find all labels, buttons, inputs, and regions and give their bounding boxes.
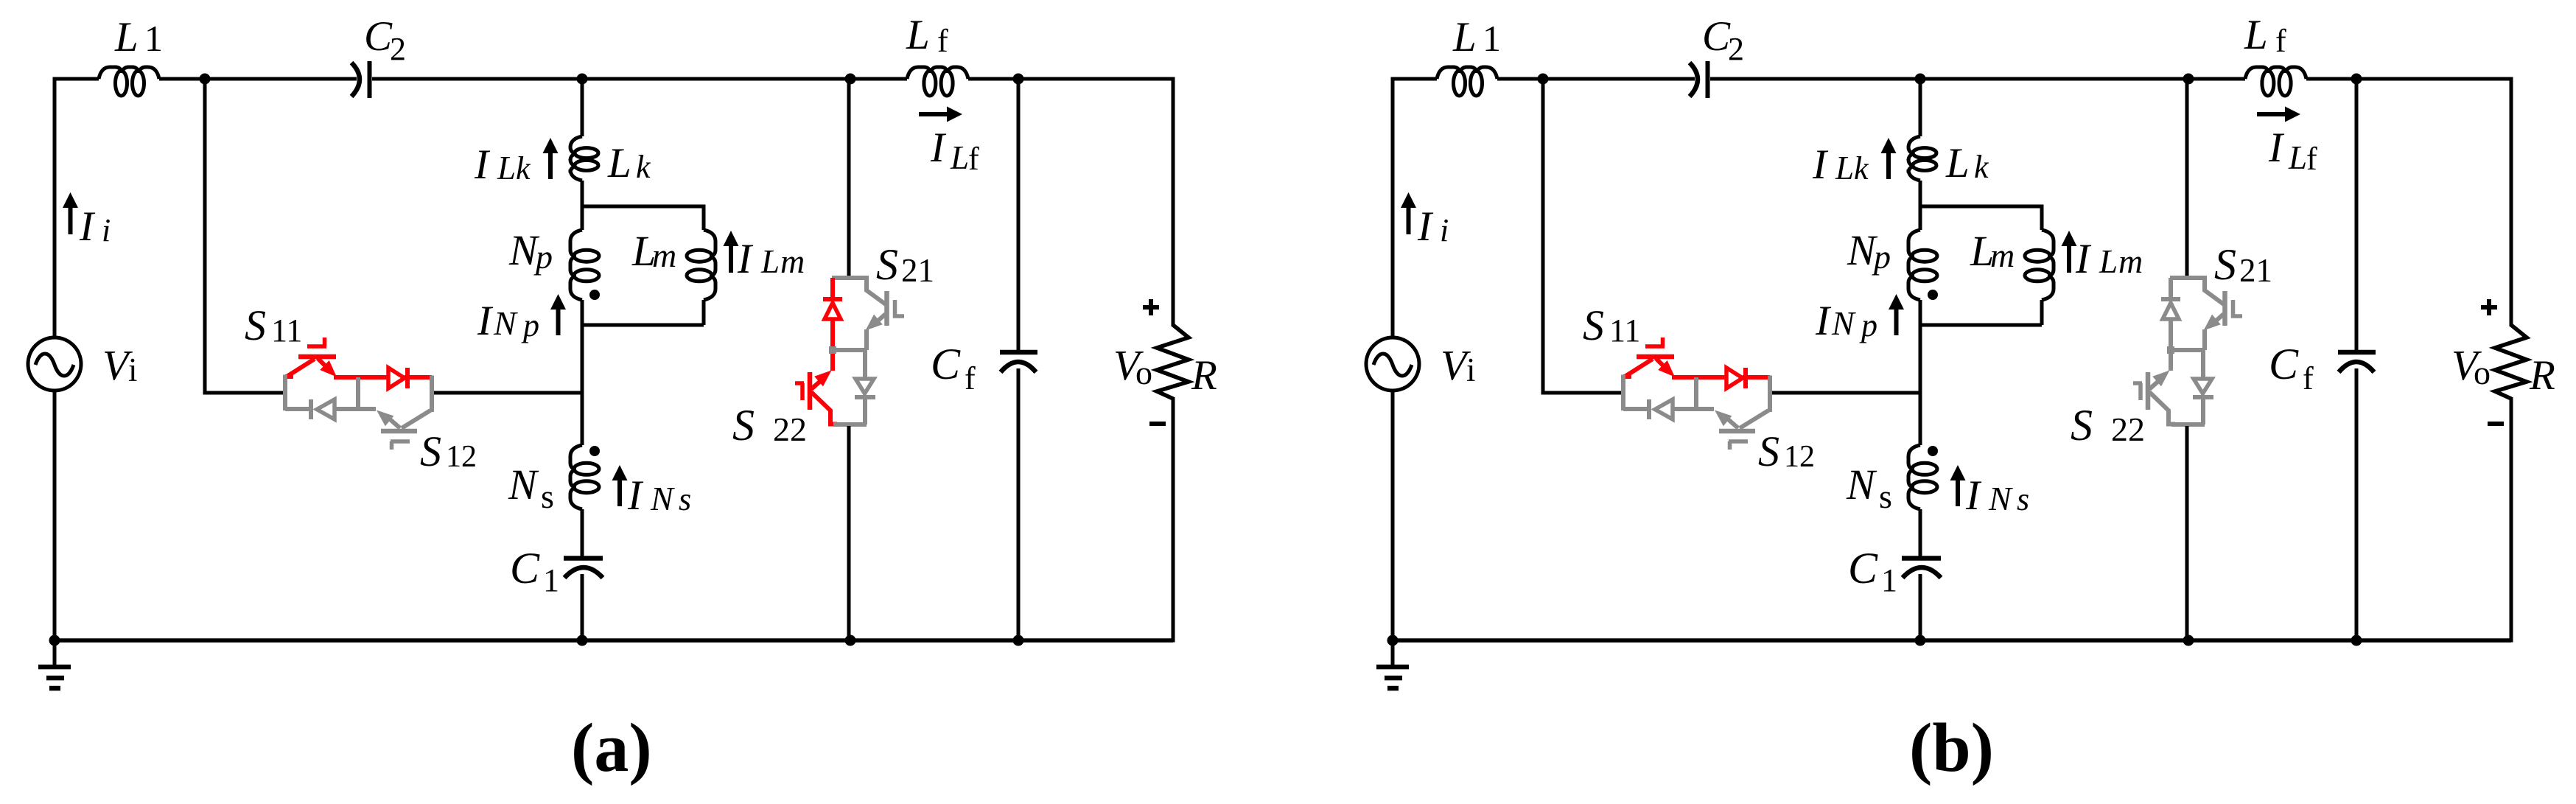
svg-text:L: L	[2244, 12, 2268, 58]
svg-text:p: p	[521, 307, 539, 343]
svg-text:p: p	[1859, 307, 1877, 343]
diode D21 (series with S21) (b)	[2169, 278, 2173, 299]
arrow ILm (b)	[2067, 243, 2071, 273]
svg-text:C: C	[2269, 340, 2299, 388]
wire source to ground node (b)	[1391, 391, 1395, 640]
wire C2 to transformer node (b)	[1710, 77, 2245, 81]
wire top bus down to S21 block (b)	[2185, 79, 2189, 278]
inductor Lf (a)	[907, 67, 968, 96]
svg-text:22: 22	[773, 410, 807, 448]
wire S11 block to transformer (a)	[434, 391, 582, 395]
svg-text:o: o	[1135, 354, 1152, 391]
svg-text:S: S	[732, 401, 755, 450]
wire top node down to Lk (b)	[1919, 79, 1922, 136]
node C2-transformer junction (b)	[1915, 74, 1926, 85]
node ground junction (a)	[49, 635, 60, 646]
winding Ns (b)	[1908, 445, 1937, 509]
switch S12 (IGBT, gray) (a)	[381, 429, 417, 434]
svg-text:p: p	[1872, 238, 1891, 276]
AC source Vi (a)	[28, 338, 81, 391]
svg-text:S: S	[420, 427, 441, 475]
wire top bus left segment (b)	[1393, 77, 1437, 81]
wire C2 node down to S11 block (b)	[1543, 79, 1621, 393]
svg-text:C: C	[1702, 13, 1731, 60]
svg-text:f: f	[937, 23, 948, 59]
node Lf-Cf junction (b)	[2351, 74, 2362, 85]
svg-text:I: I	[627, 472, 644, 519]
wire S11 block rails (b)	[1621, 375, 1625, 411]
svg-text:L: L	[2288, 139, 2307, 176]
capacitor C1 (b)	[1902, 556, 1941, 561]
svg-text:I: I	[1812, 141, 1829, 188]
svg-text:S: S	[245, 301, 266, 349]
svg-text:L: L	[950, 139, 969, 176]
node Cf bottom junction (a)	[1013, 635, 1024, 646]
wire L1 to C2 (b)	[1497, 77, 1695, 81]
inductor Lf (b)	[2245, 67, 2306, 96]
node L1-C2 junction (a)	[200, 74, 211, 85]
wire top bus left segment (a)	[55, 77, 99, 81]
diode D22 (gray, series with S22) (a)	[863, 350, 867, 379]
switch S21 (IGBT, gray) (a)	[832, 276, 867, 280]
svg-text:I: I	[474, 141, 491, 188]
svg-text:L: L	[1945, 140, 1970, 186]
svg-text:S: S	[2214, 240, 2236, 289]
svg-text:k: k	[1854, 150, 1869, 186]
svg-text:S: S	[2071, 401, 2093, 450]
switch S21 (IGBT, gray) (b)	[2170, 276, 2205, 280]
wire Lm branch box (a)	[582, 206, 704, 325]
node S21 branch junction (a)	[845, 74, 856, 85]
svg-text:R: R	[1191, 352, 1217, 399]
svg-text:f: f	[965, 360, 976, 396]
svg-text:L: L	[114, 14, 139, 60]
svg-text:N: N	[493, 304, 518, 342]
arrow ILf (a)	[919, 112, 950, 116]
svg-text:o: o	[2474, 354, 2491, 391]
svg-text:m: m	[2118, 242, 2143, 280]
svg-text:s: s	[1879, 478, 1892, 515]
svg-text:R: R	[2529, 352, 2555, 399]
svg-text:k: k	[516, 150, 531, 186]
svg-text:12: 12	[1784, 440, 1815, 474]
wire S11 block to transformer (b)	[1772, 391, 1920, 395]
polarity dot Ns (b)	[1928, 446, 1938, 456]
wire bottom bus (b)	[1393, 638, 2511, 643]
svg-text:N: N	[650, 480, 675, 517]
svg-text:m: m	[652, 237, 676, 274]
svg-text:I: I	[1965, 472, 1982, 519]
svg-text:1: 1	[543, 562, 559, 598]
ground (a)	[53, 640, 57, 667]
winding Np (a)	[570, 230, 599, 300]
switch S11 (IGBT, red) (b)	[1623, 374, 1631, 379]
svg-text:N: N	[1846, 461, 1877, 508]
svg-text:C: C	[510, 544, 540, 592]
node L1-C2 junction (b)	[1538, 74, 1549, 85]
wire Lk to Np (b)	[1919, 181, 1922, 230]
arrow ILk (b)	[1886, 150, 1891, 179]
polarity dot Ns (a)	[589, 446, 600, 456]
node ground junction (b)	[1387, 635, 1399, 646]
circuit (b)	[1366, 12, 2555, 786]
svg-text:21: 21	[2239, 252, 2272, 289]
svg-text:i: i	[102, 212, 111, 248]
wire C1 to bottom bus (b)	[1919, 574, 1922, 640]
wire S21-S22 middle junction (b)	[2170, 348, 2205, 352]
svg-text:C: C	[364, 13, 393, 60]
node C2-transformer junction (a)	[577, 74, 588, 85]
svg-text:L: L	[607, 140, 631, 186]
winding Ns (a)	[570, 445, 599, 509]
wire Lm branch box (b)	[1920, 206, 2042, 325]
svg-text:m: m	[780, 242, 805, 280]
svg-text:(b): (b)	[1909, 710, 1994, 786]
capacitor Cf (a)	[1000, 350, 1037, 355]
switch S12 (IGBT, gray) (b)	[1719, 429, 1755, 434]
label + (a)	[1143, 299, 1159, 315]
label minus (a)	[1149, 422, 1166, 426]
arrow ILk (a)	[548, 150, 553, 179]
svg-text:I: I	[79, 203, 96, 250]
svg-text:L: L	[497, 150, 516, 186]
svg-text:I: I	[930, 125, 947, 171]
diode D12 (gray, series with S12) (a)	[285, 407, 311, 411]
svg-text:L: L	[1452, 14, 1477, 60]
wire right edge down to R (a)	[1172, 77, 1175, 327]
svg-text:(a): (a)	[571, 710, 652, 786]
svg-text:i: i	[128, 352, 138, 388]
svg-text:I: I	[2268, 125, 2285, 171]
svg-text:12: 12	[446, 440, 477, 474]
svg-text:f: f	[968, 141, 979, 177]
inductor L1 (a)	[99, 67, 159, 96]
switch S22 (IGBT) (a)	[811, 379, 823, 389]
wire Cf to bottom bus (b)	[2355, 368, 2359, 640]
diode D22 (gray, series with S22) (b)	[2201, 350, 2205, 379]
svg-text:C: C	[931, 340, 961, 388]
svg-text:s: s	[541, 478, 554, 515]
wire source to ground node (a)	[53, 391, 57, 640]
node Cf bottom junction (b)	[2351, 635, 2362, 646]
wire S11 block rails (a)	[283, 375, 287, 411]
wire R to bottom bus (a)	[1172, 397, 1175, 643]
switch S22 (IGBT) (b)	[2149, 379, 2161, 389]
diode D11 (red, series with S11) (a)	[334, 375, 388, 380]
arrow ILm (a)	[729, 243, 733, 273]
capacitor C2 (a)	[351, 63, 360, 97]
arrow Ii (a)	[69, 205, 73, 234]
wire Np to Ns (b)	[1919, 300, 1922, 445]
svg-text:I: I	[2075, 236, 2092, 282]
svg-text:L: L	[906, 12, 930, 58]
label minus (b)	[2488, 422, 2504, 426]
svg-text:2: 2	[390, 31, 406, 67]
svg-text:k: k	[636, 149, 651, 185]
winding Np (b)	[1908, 230, 1937, 300]
svg-text:f: f	[2303, 360, 2314, 396]
polarity dot Np (b)	[1928, 290, 1938, 300]
svg-text:I: I	[1417, 203, 1434, 250]
inductor Lm (magnetizing) (b)	[2025, 230, 2054, 300]
ground (b)	[1391, 640, 1395, 667]
arrow Ii (b)	[1407, 205, 1411, 234]
wire Np to Ns (a)	[581, 300, 584, 445]
svg-text:f: f	[2306, 141, 2317, 177]
svg-text:22: 22	[2111, 410, 2145, 448]
diode D12 (gray, series with S12) (b)	[1623, 407, 1649, 411]
svg-text:1: 1	[1881, 562, 1897, 598]
svg-text:C: C	[1848, 544, 1878, 592]
wire Ns to C1 (a)	[581, 509, 584, 557]
wire S22 to bottom bus (b)	[2185, 426, 2189, 640]
wire right edge down to R (b)	[2510, 77, 2513, 327]
node S21 branch junction (b)	[2183, 74, 2194, 85]
wire Cf branch top (a)	[1017, 79, 1021, 350]
svg-text:S: S	[1758, 427, 1779, 475]
arrow INs (a)	[617, 478, 622, 506]
inductor Lk (leakage) (b)	[1908, 136, 1936, 181]
svg-text:1: 1	[1483, 18, 1501, 59]
svg-text:I: I	[1815, 298, 1832, 344]
wire source to top bus (a)	[53, 77, 57, 338]
node S22 bottom junction (a)	[845, 635, 856, 646]
AC source Vi (b)	[1366, 338, 1419, 391]
diode D21 (series with S21) (a)	[830, 278, 835, 299]
svg-text:2: 2	[1728, 31, 1744, 67]
polarity dot Np (a)	[589, 290, 600, 300]
arrow ILf (b)	[2257, 112, 2288, 116]
svg-text:k: k	[1974, 149, 1989, 185]
svg-text:L: L	[1835, 150, 1854, 186]
node S22 bottom junction (b)	[2183, 635, 2194, 646]
wire S22 to bottom bus (a)	[847, 426, 851, 640]
svg-text:I: I	[477, 298, 494, 344]
svg-text:s: s	[679, 481, 691, 517]
svg-text:S: S	[1583, 301, 1604, 349]
svg-text:m: m	[1990, 237, 2015, 274]
svg-text:p: p	[533, 238, 553, 276]
circuit (a)	[28, 12, 1217, 786]
wire L1 to C2 (a)	[159, 77, 357, 81]
wire Lf to right corner (a)	[968, 77, 1173, 81]
wire Cf branch top (b)	[2355, 79, 2359, 350]
arrow INs (b)	[1956, 478, 1960, 506]
capacitor Cf (b)	[2338, 350, 2376, 355]
svg-text:N: N	[508, 461, 539, 508]
svg-text:1: 1	[144, 18, 163, 59]
wire R to bottom bus (b)	[2510, 397, 2513, 643]
node C1 bottom junction (b)	[1915, 635, 1926, 646]
wire C2 to transformer node (a)	[372, 77, 907, 81]
inductor Lk (leakage) (a)	[570, 136, 598, 181]
wire source to top bus (b)	[1391, 77, 1395, 338]
wire Lf to right corner (b)	[2306, 77, 2511, 81]
arrow INp (a)	[556, 307, 561, 335]
wire C1 to bottom bus (a)	[581, 574, 584, 640]
wire S21-S22 middle junction (a)	[832, 348, 867, 352]
svg-text:N: N	[1831, 304, 1856, 342]
svg-text:i: i	[1440, 212, 1449, 248]
svg-text:s: s	[2017, 481, 2029, 517]
svg-text:11: 11	[271, 312, 302, 349]
switch S11 (IGBT, red) (a)	[285, 374, 293, 379]
wire top bus down to S21 block (a)	[847, 79, 851, 278]
svg-text:S: S	[876, 240, 898, 289]
wire C2 node down to S11 block (a)	[205, 79, 283, 393]
label + (b)	[2481, 299, 2497, 315]
resistor R (a)	[1157, 325, 1189, 399]
diode D11 (red, series with S11) (b)	[1672, 375, 1726, 380]
svg-text:N: N	[1988, 480, 2013, 517]
svg-text:f: f	[2275, 23, 2286, 59]
inductor L1 (b)	[1437, 67, 1497, 96]
wire Cf to bottom bus (a)	[1017, 368, 1021, 640]
svg-text:L: L	[760, 243, 780, 280]
svg-text:i: i	[1466, 352, 1476, 388]
wire Ns to C1 (b)	[1919, 509, 1922, 557]
capacitor C1 (a)	[564, 556, 603, 561]
node C1 bottom junction (a)	[577, 635, 588, 646]
wire top node down to Lk (a)	[581, 79, 584, 136]
wire Lk to Np (a)	[581, 181, 584, 230]
node Lf-Cf junction (a)	[1013, 74, 1024, 85]
resistor R (b)	[2495, 325, 2527, 399]
svg-text:11: 11	[1609, 312, 1640, 349]
svg-text:I: I	[737, 236, 754, 282]
svg-text:L: L	[2099, 243, 2118, 280]
capacitor C2 (b)	[1690, 63, 1698, 97]
inductor Lm (magnetizing) (a)	[687, 230, 715, 300]
arrow INp (b)	[1894, 307, 1899, 335]
wire bottom bus (a)	[55, 638, 1173, 643]
svg-text:21: 21	[901, 252, 934, 289]
